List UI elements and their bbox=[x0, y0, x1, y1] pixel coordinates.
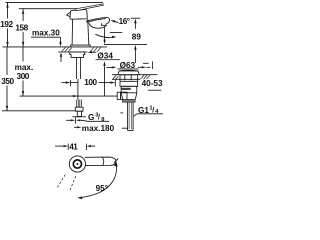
drain: pivot bar bbox=[121, 88, 131, 90]
wire: 350 bottom reference line bbox=[2, 110, 75, 112]
faucet: aerator bbox=[102, 23, 107, 25]
wire: horizontal stub right of spout bbox=[110, 32, 123, 34]
node: dimension 192 vertical line bbox=[7, 2, 9, 18]
wire: outlet level line bbox=[104, 44, 147, 46]
svg-text:192: 192 bbox=[0, 20, 13, 29]
faucet: mounting nut below deck bbox=[70, 52, 85, 57]
node: dimension 89 bbox=[131, 17, 140, 19]
deck hatching left of faucet bbox=[62, 47, 72, 52]
faucet: flexible hose line bbox=[77, 79, 79, 100]
svg-text:G1: G1 bbox=[138, 106, 149, 115]
svg-text:max.: max. bbox=[15, 63, 34, 72]
wire: tick under hose fitting bbox=[72, 116, 86, 118]
drain: taper to nut bbox=[121, 93, 122, 99]
svg-text:350: 350 bbox=[1, 77, 14, 86]
svg-text:40-53: 40-53 bbox=[142, 79, 163, 88]
node: Ø34 leader arrow bbox=[88, 51, 93, 53]
svg-text:16°: 16° bbox=[119, 17, 130, 26]
wire: top extension line 192 bbox=[6, 1, 104, 3]
node: max.30 label leader bbox=[31, 36, 61, 38]
node: 16 degree angle arc bbox=[95, 34, 113, 37]
drain: rod clevis bbox=[117, 92, 120, 99]
svg-text:Ø34: Ø34 bbox=[97, 51, 113, 60]
svg-text:89: 89 bbox=[132, 33, 142, 42]
wire: drain deck bottom line bbox=[112, 78, 140, 80]
wire: radial tick at lever tip bbox=[114, 158, 118, 163]
drain: tailpipe bbox=[127, 102, 129, 130]
svg-text:max.30: max.30 bbox=[32, 29, 60, 38]
topview: knob inner ring bbox=[73, 160, 81, 168]
node: dimension max.300 vertical line bbox=[22, 47, 24, 62]
node: Ø63 leaders bbox=[106, 66, 112, 68]
wire: tick left of tailpipe bottom bbox=[122, 127, 128, 129]
drain: pop-up flange dome bbox=[118, 70, 139, 75]
topview: knob outer circle bbox=[69, 156, 85, 172]
faucet: supply pipe bbox=[76, 58, 78, 79]
node: spout outlet ref vertical to drain rod bbox=[104, 66, 106, 96]
node: 95 degree arc bbox=[79, 164, 117, 198]
svg-text:Ø63: Ø63 bbox=[120, 61, 136, 70]
faucet: lever blade bbox=[76, 4, 104, 11]
svg-text:158: 158 bbox=[15, 23, 28, 32]
underline Ø34 bbox=[96, 58, 121, 61]
topview: dashed swung lever bbox=[57, 175, 76, 191]
node: dimension 100 line bbox=[62, 82, 67, 84]
topview: lever capsule bbox=[85, 157, 116, 166]
svg-text:max.180: max.180 bbox=[82, 124, 115, 133]
wire: deck top line bbox=[3, 46, 108, 48]
drain: lower body block bbox=[121, 86, 137, 93]
faucet: spout bbox=[86, 17, 110, 23]
wire: 40-53 lower reference line bbox=[148, 89, 162, 91]
svg-text:41: 41 bbox=[69, 142, 78, 151]
drain: waste body bbox=[120, 75, 138, 87]
topview: knob center dot bbox=[76, 163, 78, 165]
wire: drain deck top line bbox=[112, 74, 157, 76]
svg-text:95°: 95° bbox=[96, 184, 108, 193]
svg-text:300: 300 bbox=[17, 72, 30, 81]
node: max.180 hose dimension marks bbox=[66, 119, 72, 121]
wire: deck bottom line bbox=[58, 51, 88, 53]
node: dimension 41 bbox=[55, 145, 65, 147]
node: G1 1/4 underline and leader bbox=[137, 113, 163, 115]
faucet: hose end fitting bbox=[77, 100, 82, 108]
node: 16 degree leader bbox=[114, 21, 118, 23]
faucet: lever rear wedge bbox=[67, 12, 71, 17]
drain: rod housing bbox=[121, 92, 127, 99]
wire: extension line 158 bbox=[19, 8, 77, 10]
node: arrow before max.180 bbox=[74, 126, 79, 128]
node: spout outlet reference vertical bbox=[104, 27, 106, 41]
drain: compression nut bbox=[122, 99, 135, 102]
svg-text:100: 100 bbox=[84, 78, 97, 87]
deck hatching right of faucet bbox=[90, 47, 101, 52]
faucet: body column bbox=[71, 19, 74, 45]
faucet: base plate bbox=[71, 45, 91, 47]
wire: max.300 bottom reference line / drain rod line bbox=[20, 95, 118, 97]
node: dimension 158 vertical line bbox=[22, 9, 24, 21]
svg-text:G: G bbox=[88, 113, 94, 122]
drain deck hatching bbox=[113, 75, 150, 79]
node: dimension 350 vertical line bbox=[6, 47, 8, 75]
wire: thread tick left of tailpipe bbox=[120, 112, 123, 114]
node: G3/8 underline bbox=[87, 120, 110, 122]
faucet: handle knob bbox=[70, 10, 87, 20]
